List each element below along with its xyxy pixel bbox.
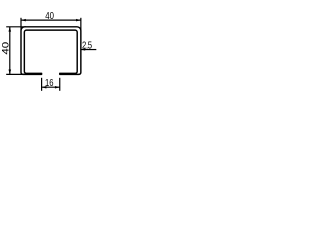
C-channel profile outline — [21, 27, 81, 75]
extension line right of top dimension — [80, 18, 82, 30]
arrowhead top-left — [21, 19, 26, 22]
arrowhead left-top — [9, 27, 12, 32]
dimension line 40 top — [21, 19, 81, 21]
arrowhead 16-right — [55, 86, 60, 89]
svg-text:40: 40 — [45, 10, 54, 21]
background — [0, 0, 111, 100]
svg-text:16: 16 — [45, 77, 54, 88]
extension line left of bottom 16 dimension — [41, 78, 43, 91]
svg-text:2.5: 2.5 — [82, 39, 92, 50]
extension line bottom of left dimension — [6, 73, 26, 75]
extension line top of left dimension — [6, 26, 26, 28]
leader arrowhead — [81, 48, 85, 50]
dimension line 16 bottom — [42, 86, 60, 88]
arrowhead 16-left — [42, 86, 47, 89]
leader line for wall thickness 2.5 — [81, 49, 96, 51]
arrowhead top-right — [76, 19, 81, 22]
extension line right of bottom 16 dimension — [59, 78, 61, 91]
arrowhead left-bottom — [9, 70, 12, 75]
dimension line 40 left — [9, 27, 11, 75]
extension line left of top dimension — [20, 18, 22, 30]
svg-text:40: 40 — [1, 42, 11, 55]
